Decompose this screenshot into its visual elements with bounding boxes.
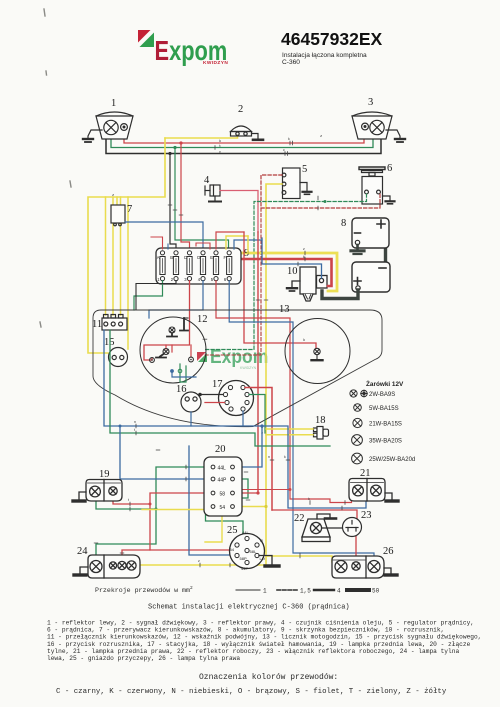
svg-text:F: F bbox=[224, 255, 227, 260]
wire blue pin under gauge 12 bbox=[170, 369, 174, 373]
wire green main run from switch 11 bbox=[110, 330, 330, 446]
svg-text:R: R bbox=[260, 538, 263, 543]
gauge 12 pins bbox=[150, 358, 155, 363]
brake switch 18 bbox=[314, 427, 329, 440]
svg-text:z: z bbox=[320, 135, 322, 139]
svg-text:Przekroje przewodów w mm: Przekroje przewodów w mm bbox=[95, 587, 190, 594]
svg-text:6: 6 bbox=[387, 163, 392, 174]
wire red to ignition bbox=[205, 402, 225, 404]
wire yellow drops to switch 11 bbox=[106, 197, 129, 349]
wire blue flasher 7 to fuse D bbox=[125, 222, 203, 249]
svg-text:C-360: C-360 bbox=[282, 59, 300, 66]
svg-text:4: 4 bbox=[337, 588, 341, 595]
svg-text:t: t bbox=[219, 145, 221, 149]
wire red trunk A (to hourmeter 13 bulb) bbox=[244, 232, 316, 348]
wire dashed red drop to panel bbox=[205, 208, 261, 355]
batteries 8 bbox=[322, 218, 390, 299]
svg-text:20: 20 bbox=[215, 444, 226, 455]
work lamp switch 23 bbox=[343, 518, 362, 537]
horn 2 bbox=[231, 126, 264, 140]
wire blue from ignition bottom bbox=[242, 411, 244, 426]
svg-text:16: 16 bbox=[176, 384, 187, 395]
ground of headlamp 1 bbox=[83, 130, 102, 142]
wire blue to starter solenoid bbox=[262, 238, 322, 278]
front lamp left 19 bbox=[86, 480, 122, 502]
rear lamp left 24 bbox=[88, 555, 140, 578]
bulb legend bbox=[350, 379, 415, 464]
svg-text:13: 13 bbox=[279, 304, 290, 315]
wire blue from 16 bbox=[190, 412, 192, 426]
wire yellow 54 left exit bbox=[142, 507, 211, 510]
wire red thick to starter bbox=[242, 259, 332, 286]
svg-text:E: E bbox=[155, 35, 170, 66]
wire red switch 23 to rear lamp 26 bbox=[355, 536, 357, 562]
svg-text:t: t bbox=[128, 498, 129, 502]
fuse box 9 bbox=[156, 248, 241, 284]
svg-text:1 - reflektor lewy, 2 - sygnał: 1 - reflektor lewy, 2 - sygnał dźwiękowy… bbox=[47, 620, 474, 627]
bulb in hourmeter bbox=[312, 348, 323, 360]
flasher relay 7 bbox=[111, 205, 125, 226]
svg-text:17: 17 bbox=[212, 379, 223, 390]
svg-text:tylne, 21 - lampka przednia pr: tylne, 21 - lampka przednia prawa, 22 - … bbox=[47, 648, 459, 655]
svg-text:18: 18 bbox=[315, 415, 326, 426]
wire yellow trunk B riser bbox=[247, 236, 249, 253]
oil lamp in 12 bbox=[156, 349, 169, 358]
svg-text:Schemat instalacji elektryczne: Schemat instalacji elektrycznej C-360 (p… bbox=[148, 604, 350, 612]
wire blue main run from switch 11 bbox=[104, 330, 366, 508]
scan specks bbox=[40, 9, 71, 327]
wire green loop under gauge 12 bbox=[180, 364, 186, 382]
svg-text:D: D bbox=[197, 255, 200, 260]
svg-text:n: n bbox=[134, 420, 136, 424]
wire red rear lamp left riser bbox=[122, 504, 150, 563]
svg-text:16 - przycisk rozrusznika, 17: 16 - przycisk rozrusznika, 17 - stacyjka… bbox=[47, 641, 471, 648]
wire blue stub to socket 25 pin 44P bbox=[189, 446, 244, 561]
oil pressure sender 4 bbox=[205, 185, 221, 202]
svg-text:58L: 58L bbox=[250, 549, 257, 554]
wire green rear lamp left riser bbox=[96, 509, 156, 557]
wire 22 to 23 bbox=[322, 527, 342, 529]
svg-text:24: 24 bbox=[77, 546, 88, 557]
svg-text:t: t bbox=[134, 428, 135, 432]
svg-text:E: E bbox=[210, 255, 213, 260]
svg-text:50: 50 bbox=[372, 588, 380, 595]
ground of headlamp 3 bbox=[386, 130, 405, 142]
wire red trunk to socket 25 pin 58P bbox=[150, 550, 235, 556]
numbered legend bbox=[47, 620, 481, 663]
wire red drops in gauge 12 bbox=[166, 345, 191, 357]
watermark logo bbox=[197, 345, 268, 370]
svg-text:10: 10 bbox=[287, 266, 298, 277]
svg-text:B: B bbox=[170, 255, 173, 260]
hourmeter 13 dial bbox=[285, 319, 350, 384]
regulator 5 bbox=[282, 168, 311, 199]
svg-text:12: 12 bbox=[197, 314, 208, 325]
svg-text:58P: 58P bbox=[240, 556, 247, 561]
wires into fuse tops from right trunk bbox=[216, 232, 244, 249]
starter button 16 bbox=[181, 392, 201, 412]
svg-text:n: n bbox=[268, 455, 270, 459]
svg-text:35W-BA20S: 35W-BA20S bbox=[369, 439, 402, 445]
bottom legend: wire cross sections bbox=[95, 585, 380, 595]
svg-text:25: 25 bbox=[227, 525, 238, 536]
svg-text:11 - przełącznik kierunkowskaz: 11 - przełącznik kierunkowskazów, 12 - w… bbox=[47, 634, 481, 641]
wire yellow drop to flasher 7 bbox=[116, 197, 118, 205]
wires yellow to brake switch 18 bbox=[266, 429, 313, 435]
svg-text:A: A bbox=[157, 255, 160, 260]
svg-text:54: 54 bbox=[230, 547, 235, 552]
svg-text:Expom: Expom bbox=[210, 345, 268, 367]
svg-text:k: k bbox=[308, 497, 310, 501]
wire black bus bbox=[106, 138, 381, 154]
wire red from ignition to trunk bbox=[245, 388, 272, 511]
svg-text:15: 15 bbox=[104, 337, 115, 348]
svg-text:k: k bbox=[284, 455, 286, 459]
connector block 20 bbox=[204, 457, 242, 516]
wire red branch to switch 23 bbox=[272, 510, 357, 519]
svg-text:5W-BA15S: 5W-BA15S bbox=[369, 406, 399, 412]
wire gauge tick marks bbox=[94, 141, 345, 567]
work lamp 22 bbox=[302, 514, 336, 542]
ground of lamp 21 bbox=[385, 493, 398, 501]
wire blue to connector 20 44P bbox=[120, 426, 211, 479]
wire yellow branch to rear lamp 26 bbox=[266, 556, 336, 562]
svg-text:z: z bbox=[303, 247, 305, 251]
svg-text:5: 5 bbox=[302, 164, 307, 175]
wire green 44P right exit to socket 25 bbox=[206, 479, 249, 538]
svg-text:26: 26 bbox=[383, 546, 394, 557]
svg-text:4: 4 bbox=[204, 175, 210, 186]
svg-text:2: 2 bbox=[190, 585, 193, 591]
svg-text:k: k bbox=[303, 255, 305, 259]
svg-text:KWIDZYN: KWIDZYN bbox=[240, 366, 257, 370]
wire dashed green generator to panel bbox=[205, 194, 367, 350]
wire red 58 right exit bbox=[234, 492, 258, 494]
svg-text:7: 7 bbox=[127, 204, 132, 215]
wire red trunk main riser bbox=[257, 232, 259, 493]
svg-text:C - czarny, K - czerwony, N -: C - czarny, K - czerwony, N - niebieski,… bbox=[56, 688, 447, 696]
wire green bus bbox=[111, 136, 373, 148]
wire yellow right trunk (to regulator 5) bbox=[140, 184, 282, 565]
headlamp 1 bbox=[96, 112, 133, 139]
generator 6 bbox=[359, 167, 395, 204]
svg-text:25W/25W-BA20d: 25W/25W-BA20d bbox=[369, 457, 415, 463]
fuse bottom exits bbox=[134, 281, 163, 310]
svg-text:44L: 44L bbox=[218, 466, 227, 472]
wire green branch to connector 20 44L bbox=[96, 467, 211, 509]
svg-text:KWIDZYN: KWIDZYN bbox=[203, 60, 228, 66]
wire yellow thick to starter bbox=[242, 253, 337, 291]
wire black to ignition bbox=[200, 394, 223, 396]
svg-text:58: 58 bbox=[220, 492, 226, 498]
svg-text:3: 3 bbox=[368, 97, 373, 108]
headlamp 3 bbox=[352, 112, 392, 139]
svg-text:46457932EX: 46457932EX bbox=[281, 29, 383, 49]
svg-text:z: z bbox=[112, 194, 114, 198]
svg-text:11: 11 bbox=[92, 319, 102, 330]
svg-text:54: 54 bbox=[220, 505, 226, 511]
gauge 12 dial bbox=[140, 317, 206, 383]
svg-text:6 - prądnica, 7 - przerywacz k: 6 - prądnica, 7 - przerywacz kierunkowsk… bbox=[47, 627, 444, 634]
horn button 15 bbox=[109, 348, 128, 367]
wire yellow 54 right exit bbox=[234, 506, 266, 508]
dashboard panel outline bbox=[93, 310, 382, 427]
wire yellow bus to horn bbox=[165, 136, 238, 139]
wire dashed red regulator-generator bbox=[261, 175, 380, 208]
svg-text:lewa, 25 - gniazdo przyczepy,: lewa, 25 - gniazdo przyczepy, 26 - lampa… bbox=[47, 655, 240, 662]
svg-text:c: c bbox=[283, 148, 285, 152]
junction dots on bus bbox=[168, 152, 171, 155]
wire red to connector 20 row 58 bbox=[113, 493, 211, 504]
ground of lamp 19 bbox=[73, 492, 86, 501]
ground of socket 25 bbox=[259, 556, 279, 567]
charge indicator in 12 bbox=[167, 318, 188, 337]
wire red bus bbox=[124, 132, 364, 143]
svg-text:21W-BA15S: 21W-BA15S bbox=[369, 422, 402, 428]
svg-text:LO: LO bbox=[260, 556, 265, 561]
front lamp right 21 bbox=[349, 479, 385, 502]
starter 10 bbox=[287, 267, 327, 301]
indicator switch 11 bbox=[102, 315, 127, 331]
svg-text:8: 8 bbox=[341, 218, 346, 229]
svg-text:c: c bbox=[219, 151, 221, 155]
svg-text:1: 1 bbox=[263, 588, 267, 595]
svg-text:23: 23 bbox=[361, 510, 372, 521]
svg-text:Oznaczenia kolorów przewodów:: Oznaczenia kolorów przewodów: bbox=[199, 673, 338, 682]
rear lamp right 26 bbox=[332, 556, 384, 578]
svg-text:1,5: 1,5 bbox=[300, 588, 311, 595]
svg-text:2: 2 bbox=[238, 104, 243, 115]
svg-text:44P: 44P bbox=[241, 566, 248, 571]
wire yellow left trunk down to button 15 bbox=[88, 138, 165, 353]
svg-text:z: z bbox=[198, 559, 200, 563]
svg-text:1: 1 bbox=[111, 98, 116, 109]
ground of lamp 26 bbox=[384, 568, 397, 575]
svg-text:21: 21 bbox=[360, 468, 371, 479]
svg-text:Żarówki 12V: Żarówki 12V bbox=[366, 379, 404, 388]
wire pink from sender 4 to trunk bbox=[220, 191, 258, 233]
wire red trunk down to fuse C bbox=[181, 143, 190, 249]
ground of lamp 24 bbox=[74, 567, 88, 575]
svg-text:2W-BA9S: 2W-BA9S bbox=[369, 392, 395, 398]
svg-text:Instalacja łączona kompletna: Instalacja łączona kompletna bbox=[282, 52, 367, 59]
wire green trunk down to fuse F bbox=[175, 148, 229, 250]
svg-text:22: 22 bbox=[294, 513, 305, 524]
svg-text:44P: 44P bbox=[218, 478, 228, 484]
svg-text:44L: 44L bbox=[242, 530, 249, 535]
trailer socket 25 bbox=[230, 534, 265, 569]
Expom logo bbox=[138, 30, 228, 67]
svg-text:k: k bbox=[288, 137, 290, 141]
svg-text:C: C bbox=[184, 255, 187, 260]
wire green from ignition bbox=[249, 395, 265, 434]
wire black trunk down to fuse B bbox=[170, 154, 176, 250]
ignition switch 17 bbox=[219, 381, 254, 416]
svg-text:19: 19 bbox=[99, 469, 110, 480]
wire blue 44L right exit bbox=[234, 426, 262, 467]
